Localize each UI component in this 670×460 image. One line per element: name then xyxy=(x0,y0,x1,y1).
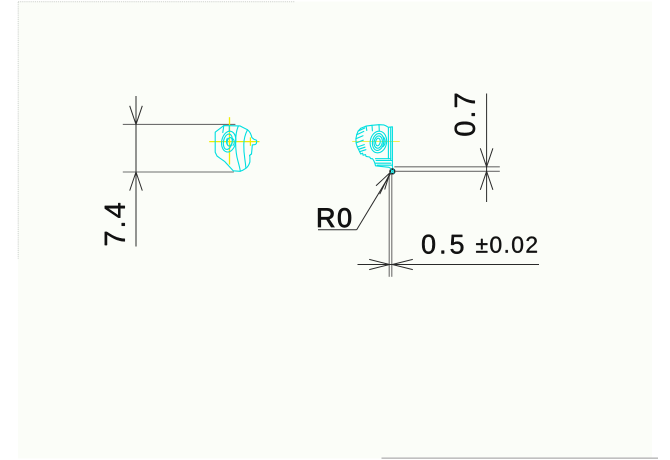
arrowhead 0.5 right xyxy=(392,259,413,269)
step notch bottom right xyxy=(250,154,252,156)
inner right vertical edge xyxy=(390,127,392,160)
right part yellow centerline xyxy=(352,141,400,143)
leader underline R0 xyxy=(318,229,357,231)
extension line 0.7 top xyxy=(394,166,499,168)
top face connector lines xyxy=(366,125,379,131)
counterbore inner ellipse xyxy=(226,137,233,146)
leader arrowhead R0 xyxy=(376,173,390,194)
extension line 0.7 bottom xyxy=(395,170,500,172)
dimension line 0.7 xyxy=(486,94,488,203)
leader text R0 xyxy=(318,208,351,227)
bore ring ellipse xyxy=(373,135,383,149)
dimension line 0.5 xyxy=(358,264,540,266)
extension line bottom (part silhouette) xyxy=(123,171,234,173)
bottom shelf lines xyxy=(375,159,393,166)
arrowhead 0.7 upper xyxy=(480,148,493,167)
left part cyan wireframe xyxy=(215,126,257,172)
arrowhead 0.7 lower xyxy=(480,171,493,190)
arrowhead top xyxy=(130,106,143,125)
title block top border line xyxy=(382,457,659,459)
extension line 0.5 left xyxy=(388,175,390,277)
counterbore outer ellipse xyxy=(220,130,238,153)
left part yellow horizontal centerline xyxy=(209,141,259,143)
bore right wall arc xyxy=(383,137,385,147)
dimension line 7.4 xyxy=(135,96,137,247)
serration facet lines xyxy=(356,128,366,152)
viewport frame left edge xyxy=(17,2,19,259)
central divider curve xyxy=(236,126,241,171)
extension line 0.5 right xyxy=(391,175,393,277)
top face connector lines xyxy=(223,126,230,133)
corner radius center yellow tick xyxy=(249,137,251,145)
arrowhead 0.5 left xyxy=(369,259,389,269)
bore outer ellipse xyxy=(369,130,389,154)
counterbore middle ellipse xyxy=(222,133,234,150)
arrowhead bottom xyxy=(130,172,143,191)
outer outline xyxy=(356,125,393,170)
leader line R0 xyxy=(357,174,391,230)
outer outline xyxy=(215,126,257,172)
viewport frame top edge xyxy=(18,1,295,3)
bore left arc xyxy=(226,138,229,145)
right face curve xyxy=(244,130,248,169)
bore middle ellipse xyxy=(371,133,385,152)
bore inner ellipse xyxy=(375,138,381,146)
tolerance text ±0.02 xyxy=(476,237,537,253)
left part yellow vertical centerline xyxy=(229,117,231,164)
dimension text 7.4 xyxy=(105,203,125,245)
bore throat arc xyxy=(233,139,235,146)
extension line top (part silhouette) xyxy=(123,123,236,125)
corner point circle R0 xyxy=(390,169,395,174)
dimension text 0.7 xyxy=(455,94,476,136)
right part cyan wireframe xyxy=(356,125,393,170)
dimension text 0.5 xyxy=(422,235,463,254)
